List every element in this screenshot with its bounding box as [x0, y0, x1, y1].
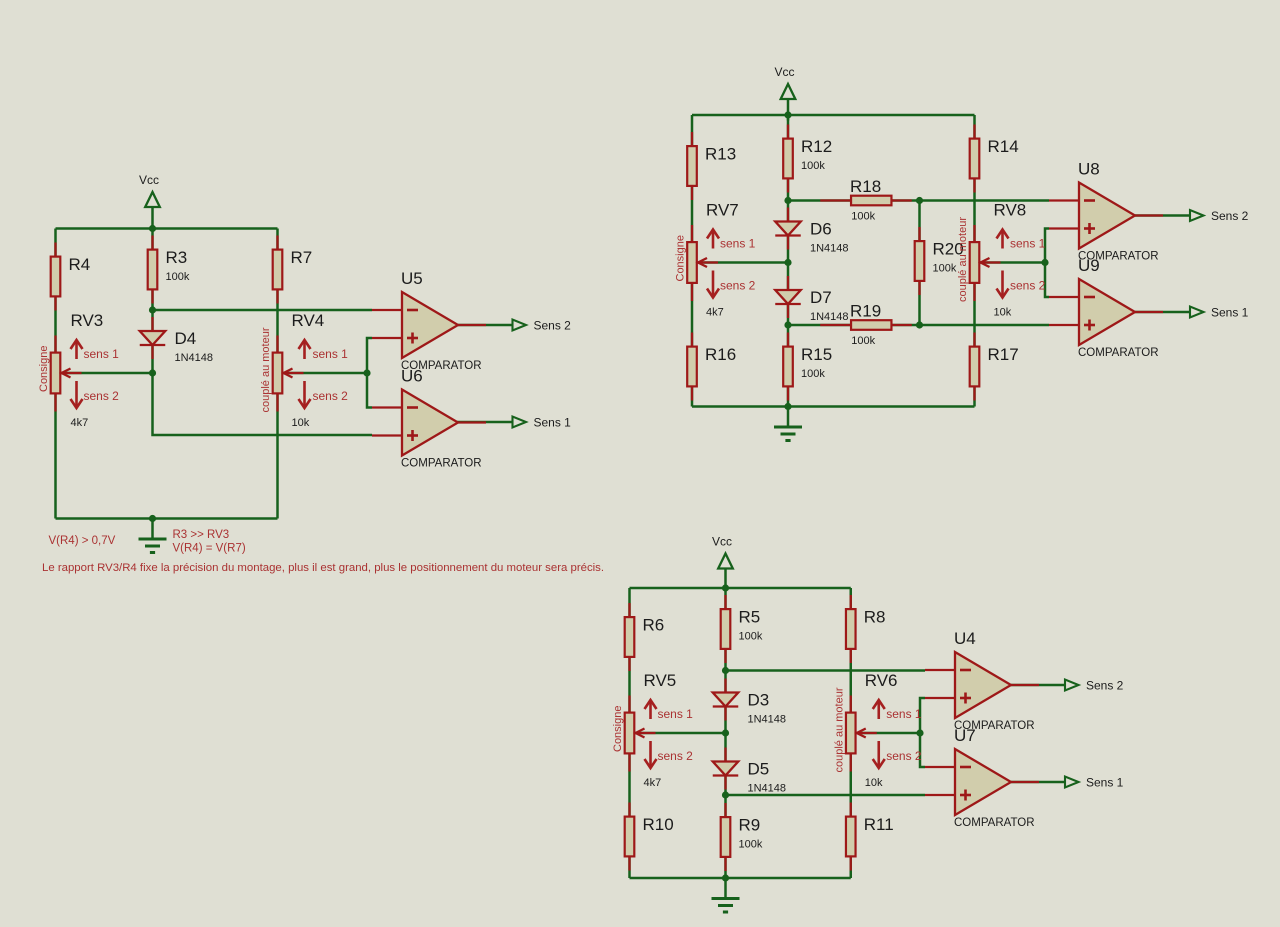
- wire U6 output: [457, 421, 513, 424]
- svg-text:R13: R13: [705, 145, 736, 164]
- wire RV6 wiper to comparator inputs: [857, 732, 920, 735]
- junction ground node: [784, 403, 791, 410]
- svg-text:COMPARATOR: COMPARATOR: [401, 458, 482, 470]
- svg-text:100k: 100k: [739, 631, 763, 643]
- svg-text:D5: D5: [748, 760, 770, 779]
- output terminal Sens 1: [1190, 307, 1204, 318]
- junction comparator input node: [916, 729, 923, 736]
- wire R12/D6 node through R18 to U8 minus: [788, 199, 1049, 202]
- resistor R16: [687, 333, 697, 401]
- svg-text:couplé au moteur: couplé au moteur: [833, 687, 845, 772]
- junction ground node: [149, 515, 156, 522]
- wire ground rail bottom: [56, 517, 278, 520]
- svg-text:1N4148: 1N4148: [748, 783, 787, 795]
- resistor R11: [846, 803, 856, 871]
- op-amp U7: [925, 749, 1039, 815]
- diode D5: [713, 748, 739, 790]
- svg-text:R11: R11: [864, 815, 894, 834]
- svg-text:sens 1: sens 1: [313, 347, 349, 361]
- junction D7/R15/R19 node: [784, 321, 791, 328]
- wire Vcc rail top: [692, 114, 975, 117]
- resistor R13: [687, 132, 697, 200]
- svg-text:R10: R10: [643, 815, 674, 834]
- arrow sens 1: [707, 230, 719, 249]
- svg-text:R16: R16: [705, 345, 736, 364]
- svg-text:100k: 100k: [851, 335, 875, 347]
- svg-text:4k7: 4k7: [706, 307, 724, 319]
- junction Vcc node: [722, 584, 729, 591]
- svg-text:RV5: RV5: [644, 671, 677, 690]
- svg-text:sens 2: sens 2: [1010, 279, 1046, 293]
- svg-text:10k: 10k: [292, 417, 310, 429]
- wire node R3/D4 to U5 minus: [153, 309, 373, 312]
- svg-text:Sens 2: Sens 2: [1211, 209, 1249, 223]
- svg-text:sens 2: sens 2: [886, 749, 922, 763]
- svg-text:R7: R7: [291, 248, 313, 267]
- potentiometer RV6: [846, 696, 877, 772]
- wire Vcc rail top: [56, 227, 278, 230]
- potentiometer RV8: [970, 225, 1001, 301]
- svg-text:couplé au moteur: couplé au moteur: [260, 327, 272, 412]
- junction Vcc node: [784, 111, 791, 118]
- svg-text:V(R4) > 0,7V: V(R4) > 0,7V: [49, 535, 116, 547]
- junction D5/R9 node: [722, 791, 729, 798]
- svg-text:COMPARATOR: COMPARATOR: [1078, 347, 1159, 359]
- svg-text:4k7: 4k7: [71, 417, 89, 429]
- arrow sens 1: [997, 230, 1009, 249]
- resistor R17: [970, 333, 980, 401]
- svg-text:RV6: RV6: [865, 671, 898, 690]
- svg-text:U5: U5: [401, 269, 423, 288]
- svg-text:R17: R17: [988, 345, 1019, 364]
- svg-text:U8: U8: [1078, 160, 1100, 179]
- svg-text:Sens 2: Sens 2: [534, 319, 572, 333]
- svg-text:COMPARATOR: COMPARATOR: [954, 817, 1035, 829]
- output terminal Sens 1: [1065, 777, 1079, 788]
- wire ground rail bottom: [630, 877, 851, 880]
- svg-text:R12: R12: [801, 137, 832, 156]
- svg-text:1N4148: 1N4148: [748, 714, 787, 726]
- resistor R9: [721, 803, 731, 871]
- svg-text:RV8: RV8: [994, 201, 1027, 220]
- svg-text:Consigne: Consigne: [38, 346, 50, 392]
- arrow sens 2: [873, 741, 885, 768]
- svg-text:D4: D4: [175, 329, 197, 348]
- resistor R19: [820, 320, 912, 330]
- svg-text:R18: R18: [850, 177, 881, 196]
- wire U5 plus / U6 minus link: [367, 338, 372, 408]
- svg-text:U7: U7: [954, 726, 976, 745]
- svg-text:U4: U4: [954, 629, 976, 648]
- output terminal Sens 2: [1190, 210, 1204, 221]
- svg-text:sens 1: sens 1: [886, 707, 922, 721]
- svg-text:1N4148: 1N4148: [175, 352, 214, 364]
- svg-text:sens 1: sens 1: [1010, 237, 1046, 251]
- ground: [139, 519, 167, 553]
- svg-text:RV3: RV3: [71, 311, 104, 330]
- wire RV8 wiper to comparator inputs: [981, 261, 1046, 264]
- resistor R14: [970, 125, 980, 193]
- wire middle branch R5-D3-D5-R9: [724, 588, 727, 878]
- junction R12/D6/R18 node: [784, 197, 791, 204]
- junction comparator input node: [363, 369, 370, 376]
- wire U4 plus / U7 minus link: [920, 698, 925, 767]
- wire U4 output: [1011, 684, 1065, 687]
- diode D6: [775, 208, 801, 250]
- power Vcc: [775, 65, 796, 121]
- op-amp U4: [925, 652, 1039, 718]
- op-amp U9: [1049, 279, 1163, 345]
- arrow sens 1: [645, 700, 657, 719]
- resistor R5: [721, 595, 731, 663]
- wire U8 output: [1135, 214, 1190, 217]
- svg-text:R8: R8: [864, 608, 886, 627]
- svg-text:R19: R19: [850, 302, 881, 321]
- potentiometer RV3: [51, 336, 82, 412]
- svg-text:R4: R4: [69, 255, 91, 274]
- resistor R12: [783, 125, 793, 193]
- wire U5 output: [457, 324, 513, 327]
- junction Vcc node: [149, 225, 156, 232]
- svg-text:100k: 100k: [933, 263, 957, 275]
- arrow sens 1: [71, 340, 83, 359]
- power Vcc: [712, 535, 733, 591]
- arrow sens 2: [645, 741, 657, 768]
- svg-text:R9: R9: [739, 816, 761, 835]
- svg-text:sens 2: sens 2: [720, 279, 756, 293]
- svg-text:100k: 100k: [739, 839, 763, 851]
- power Vcc: [139, 173, 160, 229]
- arrow sens 2: [71, 381, 83, 408]
- wire middle branch R3-D4 to U6 plus: [153, 229, 373, 436]
- svg-text:U9: U9: [1078, 256, 1100, 275]
- wire left branch R6-RV5-R10: [628, 588, 631, 878]
- potentiometer RV4: [273, 336, 304, 412]
- svg-text:1N4148: 1N4148: [810, 311, 849, 323]
- svg-text:sens 2: sens 2: [313, 389, 349, 403]
- svg-text:R15: R15: [801, 345, 832, 364]
- svg-text:Sens 1: Sens 1: [1211, 306, 1249, 320]
- svg-text:R6: R6: [643, 616, 665, 635]
- junction comparator input node: [1041, 259, 1048, 266]
- svg-text:100k: 100k: [166, 271, 190, 283]
- wire Vcc rail top: [630, 587, 851, 590]
- wire D7/R15 node through R19 to U9 plus: [788, 324, 1049, 327]
- wire left branch R13-RV7-R16: [691, 115, 694, 407]
- resistor R6: [625, 603, 635, 671]
- wire RV7 wiper to D6/D7 node: [698, 261, 788, 264]
- svg-text:sens 2: sens 2: [658, 749, 694, 763]
- svg-text:V(R4) = V(R7): V(R4) = V(R7): [173, 543, 246, 555]
- diode D4: [140, 317, 166, 359]
- svg-text:R14: R14: [988, 137, 1019, 156]
- diode D3: [713, 679, 739, 721]
- svg-text:R3 >> RV3: R3 >> RV3: [173, 529, 230, 541]
- svg-text:100k: 100k: [801, 160, 825, 172]
- arrow sens 2: [997, 271, 1009, 298]
- wire left branch R4-RV3: [54, 229, 57, 519]
- svg-text:Vcc: Vcc: [712, 535, 732, 549]
- arrow sens 2: [707, 271, 719, 298]
- svg-text:Vcc: Vcc: [775, 65, 795, 79]
- svg-text:couplé au moteur: couplé au moteur: [957, 217, 969, 302]
- resistor R7: [273, 236, 283, 304]
- op-amp U8: [1049, 183, 1163, 249]
- junction R3 bottom node: [149, 306, 156, 313]
- svg-text:sens 1: sens 1: [720, 237, 756, 251]
- svg-text:U6: U6: [401, 367, 423, 386]
- junction R5/D3 node: [722, 667, 729, 674]
- wire RV5 wiper to D3/D5 node: [636, 732, 726, 735]
- junction D4 cathode node: [149, 369, 156, 376]
- svg-text:10k: 10k: [994, 307, 1012, 319]
- svg-text:D6: D6: [810, 220, 832, 239]
- op-amp U6: [372, 390, 486, 456]
- svg-text:Le rapport RV3/R4 fixe la préc: Le rapport RV3/R4 fixe la précision du m…: [42, 562, 604, 574]
- resistor R15: [783, 333, 793, 401]
- wire RV4 wiper to comparator inputs: [284, 372, 368, 375]
- wire U8 plus / U9 minus link: [1045, 229, 1049, 298]
- svg-text:D3: D3: [748, 691, 770, 710]
- wire R5/D3 node to U4 minus: [726, 669, 926, 672]
- potentiometer RV7: [687, 225, 718, 301]
- op-amp U5: [372, 292, 486, 358]
- junction R19/R20 node: [916, 321, 923, 328]
- ground: [774, 407, 802, 441]
- resistor R18: [820, 196, 912, 206]
- junction D6/D7 wiper node: [784, 259, 791, 266]
- resistor R20: [915, 227, 925, 295]
- resistor R10: [625, 803, 635, 871]
- svg-text:Sens 2: Sens 2: [1086, 679, 1124, 693]
- wire right branch R14-RV8-R17: [973, 115, 976, 407]
- resistor R4: [51, 243, 61, 311]
- svg-text:Consigne: Consigne: [675, 235, 687, 281]
- svg-text:4k7: 4k7: [644, 777, 662, 789]
- svg-text:Sens 1: Sens 1: [534, 416, 572, 430]
- junction ground node: [722, 874, 729, 881]
- wire middle branch R12-D6-D7-R15: [787, 115, 790, 407]
- wire right branch R8-RV6-R11: [850, 588, 853, 878]
- svg-text:sens 1: sens 1: [658, 707, 694, 721]
- output terminal Sens 1: [513, 417, 527, 428]
- wire ground rail bottom: [692, 405, 975, 408]
- ground: [712, 878, 740, 912]
- junction D3/D5 wiper node: [722, 729, 729, 736]
- svg-text:RV7: RV7: [706, 201, 739, 220]
- svg-text:Sens 1: Sens 1: [1086, 776, 1124, 790]
- output terminal Sens 2: [1065, 680, 1079, 691]
- wire U7 output: [1011, 781, 1065, 784]
- resistor R8: [846, 595, 856, 663]
- arrow sens 2: [299, 381, 311, 408]
- wire D5/R9 node to U7 plus: [726, 794, 926, 797]
- wire U9 output: [1135, 311, 1190, 314]
- svg-text:100k: 100k: [801, 368, 825, 380]
- svg-text:1N4148: 1N4148: [810, 243, 849, 255]
- resistor R3: [148, 236, 158, 304]
- svg-text:Vcc: Vcc: [139, 173, 159, 187]
- svg-text:100k: 100k: [851, 211, 875, 223]
- svg-text:R3: R3: [166, 248, 188, 267]
- wire RV3 wiper to D4 cathode node: [62, 372, 153, 375]
- svg-text:sens 1: sens 1: [84, 347, 120, 361]
- svg-text:RV4: RV4: [292, 311, 325, 330]
- svg-text:D7: D7: [810, 288, 832, 307]
- diode D7: [775, 276, 801, 318]
- wire right branch R7-RV4: [276, 229, 279, 519]
- svg-text:10k: 10k: [865, 777, 883, 789]
- wire R20 branch: [918, 201, 921, 326]
- potentiometer RV5: [625, 696, 656, 772]
- arrow sens 1: [873, 700, 885, 719]
- svg-text:Consigne: Consigne: [612, 706, 624, 752]
- svg-text:sens 2: sens 2: [84, 389, 120, 403]
- junction R18/R20 node: [916, 197, 923, 204]
- output terminal Sens 2: [513, 320, 527, 331]
- svg-text:R5: R5: [739, 608, 761, 627]
- arrow sens 1: [299, 340, 311, 359]
